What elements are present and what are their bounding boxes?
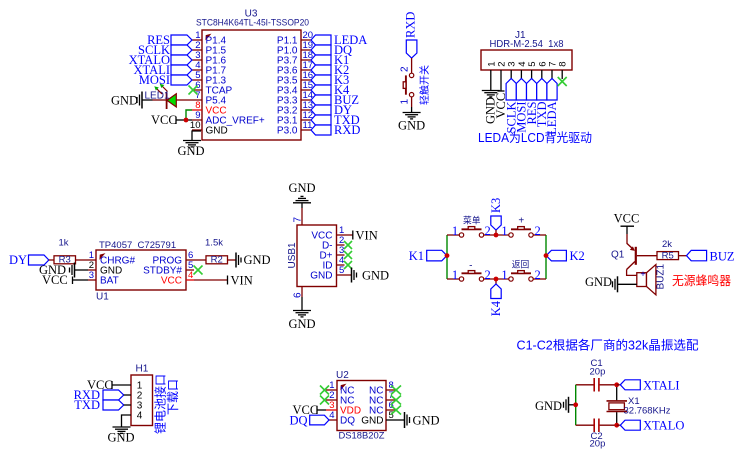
IC U3 body bbox=[202, 30, 301, 140]
svg-text:U2: U2 bbox=[336, 370, 349, 381]
net flag K4 (vertical, bottom) bbox=[489, 279, 503, 316]
net flag SCLK (J1 pin3) bbox=[504, 79, 518, 134]
net flag SCLK bbox=[138, 43, 192, 57]
IC U1 body bbox=[96, 250, 186, 290]
capacitor C1 bbox=[594, 378, 599, 392]
svg-text:GND: GND bbox=[111, 94, 138, 108]
no-connect X U2 pins 1,2 bbox=[320, 386, 329, 405]
pushbutton + (top-right) bbox=[501, 215, 540, 238]
net flag TXD (J1 pin6) bbox=[535, 79, 549, 128]
wire pin1 to VIN bbox=[345, 234, 353, 236]
svg-text:VCC: VCC bbox=[614, 212, 640, 226]
pushbutton - (bottom-left) bbox=[452, 260, 491, 282]
wire pin10 GND down bbox=[192, 131, 201, 141]
net flag XTALO bbox=[129, 53, 192, 67]
svg-text:2k: 2k bbox=[662, 239, 672, 250]
net flag DY bbox=[9, 253, 49, 267]
svg-text:GND: GND bbox=[413, 414, 440, 428]
buzzer BUZ1 bbox=[637, 265, 656, 295]
svg-text:GND: GND bbox=[177, 144, 204, 158]
earth ground above USB (inverted) bbox=[293, 196, 311, 202]
USB1 right pin names bbox=[310, 231, 332, 282]
svg-text:BAT: BAT bbox=[100, 276, 119, 287]
svg-text:VIN: VIN bbox=[231, 274, 253, 288]
C2 wires bbox=[576, 424, 617, 426]
svg-text:3: 3 bbox=[89, 270, 94, 281]
svg-text:轻触开关: 轻触开关 bbox=[418, 65, 431, 105]
svg-text:2: 2 bbox=[534, 268, 540, 282]
pin number 1 bbox=[400, 99, 411, 105]
X1 designator bbox=[628, 396, 640, 407]
U3 left pin names bbox=[206, 36, 265, 137]
no-connect X USB pins 2,3,4 bbox=[344, 241, 352, 269]
value 2k bbox=[662, 239, 672, 250]
svg-text:BUZ: BUZ bbox=[710, 249, 735, 263]
net flag RES bbox=[147, 33, 192, 47]
wire pin4 to VIN bbox=[194, 279, 228, 281]
wire DY to R3 bbox=[49, 259, 54, 261]
svg-text:无源蜂鸣器: 无源蜂鸣器 bbox=[672, 273, 731, 288]
value 1k bbox=[58, 238, 68, 249]
GND label below USB bbox=[288, 317, 315, 331]
U2 right pin numbers bbox=[389, 380, 394, 421]
svg-text:1: 1 bbox=[501, 268, 507, 282]
svg-text:R2: R2 bbox=[211, 255, 223, 266]
svg-text:VCC: VCC bbox=[42, 273, 68, 287]
wire H1 pin4 to ground bbox=[122, 415, 132, 427]
ground power port at USB pin5 bbox=[352, 268, 390, 283]
U2 left pin names bbox=[340, 386, 361, 427]
no-connect X J1 pin8 bbox=[558, 77, 567, 86]
svg-text:1: 1 bbox=[452, 224, 458, 238]
wires C1 bbox=[576, 384, 617, 386]
net flag XTALI bbox=[134, 63, 193, 77]
C1 designator bbox=[591, 358, 603, 369]
U3 right pin stubs pins 20-11 bbox=[301, 40, 311, 130]
svg-text:MOSI: MOSI bbox=[139, 73, 170, 87]
left green rail crystal bbox=[575, 385, 577, 425]
net flag RES (J1 pin5) bbox=[525, 79, 539, 125]
svg-text:+: + bbox=[518, 215, 524, 226]
green wire pin8 VCC to junction bbox=[186, 110, 192, 120]
C2 designator bbox=[591, 431, 603, 442]
svg-text:GND: GND bbox=[206, 126, 228, 137]
H1 pin numbers bbox=[137, 381, 143, 422]
top row wires bbox=[447, 234, 546, 236]
earth ground below pin10 bbox=[183, 141, 201, 147]
junction dots K matrix bbox=[445, 233, 549, 282]
no-connect X U1 pin5 bbox=[194, 266, 203, 275]
transistor Q1 (PNP) bbox=[611, 244, 636, 270]
net flag K1 bbox=[409, 249, 447, 263]
svg-text:DY: DY bbox=[9, 253, 27, 267]
GND label below pin10 bbox=[177, 144, 204, 158]
wire flag to switch pin2 bbox=[411, 58, 413, 73]
svg-text:7: 7 bbox=[293, 217, 304, 223]
svg-text:K2: K2 bbox=[570, 249, 585, 263]
junction dots crystal bbox=[573, 382, 619, 427]
pushbutton 返回 (bottom-right) bbox=[501, 258, 540, 282]
net flag RXD (vertical) bbox=[404, 12, 418, 58]
U3 part name STC8H4K64TL-45I-TSSOP20 bbox=[196, 18, 309, 29]
net flag K3 (vertical, top) bbox=[489, 198, 503, 235]
X1 value 32.768KHz bbox=[624, 406, 671, 417]
U1 right pin names bbox=[143, 256, 182, 287]
wire LED anode to pin7 bbox=[176, 99, 192, 101]
net flag DQ (U2 pin4) bbox=[289, 414, 329, 428]
U2 left pin stubs bbox=[326, 390, 337, 420]
ground power port at buzzer bbox=[585, 275, 637, 292]
svg-text:20p: 20p bbox=[590, 439, 606, 450]
wire U2 pin5 to ground bbox=[397, 419, 405, 421]
net flag RXD (H1 pin2) bbox=[74, 388, 131, 402]
net flag MOSI (J1 pin4) bbox=[515, 79, 529, 133]
VCC power port J1 pin2 (vertical) bbox=[494, 91, 508, 119]
svg-text:RXD: RXD bbox=[334, 123, 360, 137]
left green rail bbox=[446, 235, 448, 279]
svg-text:VIN: VIN bbox=[356, 229, 378, 243]
svg-text:LEDA为LCD背光驱动: LEDA为LCD背光驱动 bbox=[478, 131, 592, 145]
annotation 锂电池接口 (vertical) bbox=[153, 374, 168, 434]
svg-text:U1: U1 bbox=[96, 292, 109, 303]
svg-text:VCC: VCC bbox=[151, 113, 177, 127]
svg-text:C1-C2根据各厂商的32k晶振选配: C1-C2根据各厂商的32k晶振选配 bbox=[517, 338, 699, 353]
connector H1 body bbox=[131, 375, 153, 426]
U2 designator bbox=[336, 370, 349, 381]
svg-text:+: + bbox=[640, 269, 645, 279]
pin number 2 bbox=[400, 66, 411, 72]
bottom row wires bbox=[447, 278, 546, 280]
svg-text:2: 2 bbox=[484, 224, 490, 238]
USB1 designator (vertical) bbox=[287, 242, 298, 269]
svg-text:4: 4 bbox=[137, 411, 143, 422]
wire pin5 to ground bbox=[345, 274, 352, 276]
annotation 下载口 (vertical) bbox=[166, 379, 180, 415]
VCC power port at U1 pin3 bbox=[42, 273, 88, 287]
earth ground below USB bbox=[293, 311, 311, 317]
connector J1 designator bbox=[515, 30, 526, 41]
J1 part name HDR-M-2.54 1x8 bbox=[490, 39, 564, 50]
ground power port at U2 pin5 bbox=[405, 412, 440, 428]
no-connect X U2 pins 8,7,6 bbox=[391, 386, 401, 415]
VCC power port at pin9 bbox=[151, 113, 192, 127]
GND label above USB bbox=[288, 181, 315, 195]
svg-text:BUZ1: BUZ1 bbox=[656, 264, 667, 290]
net flag TXD (H1 pin3) bbox=[74, 398, 131, 412]
pushbutton 菜单 (top-left) bbox=[452, 214, 491, 238]
svg-text:DS18B20Z: DS18B20Z bbox=[339, 431, 385, 442]
VCC power port at U2 pin3 bbox=[293, 403, 327, 417]
annotation LEDA为LCD背光驱动 bbox=[478, 131, 592, 145]
ground power port at U1 pin2 bbox=[39, 263, 88, 278]
LED LED1 bbox=[145, 84, 177, 109]
crystal X1 bbox=[607, 401, 628, 412]
pin number 6 bbox=[293, 292, 304, 298]
net flag XTALO bbox=[617, 419, 685, 433]
svg-text:HDR-M-2.54 1x8: HDR-M-2.54 1x8 bbox=[490, 39, 564, 50]
U2 right pin names bbox=[361, 386, 383, 427]
wire switch pin1 to ground bbox=[411, 97, 413, 113]
svg-text:GND: GND bbox=[361, 416, 383, 427]
svg-text:1: 1 bbox=[400, 99, 411, 105]
VCC power port above Q1 bbox=[614, 212, 640, 235]
earth ground J1 pin1 bbox=[482, 91, 500, 97]
wire top GND to USB pin7 bbox=[301, 203, 303, 225]
wire pin6 to R2 bbox=[194, 259, 206, 261]
svg-text:LED1: LED1 bbox=[145, 91, 170, 102]
svg-text:1: 1 bbox=[452, 268, 458, 282]
wire VCC to Q1 emitter bbox=[626, 234, 628, 244]
svg-text:2: 2 bbox=[400, 66, 411, 72]
svg-text:-: - bbox=[469, 260, 472, 271]
earth ground below switch bbox=[403, 113, 421, 119]
svg-text:P3.0: P3.0 bbox=[277, 126, 298, 137]
wire Q1 collector to buzzer bbox=[627, 270, 637, 276]
svg-text:GND: GND bbox=[107, 431, 134, 445]
svg-text:菜单: 菜单 bbox=[463, 214, 481, 225]
GND label below H1 bbox=[107, 431, 134, 445]
svg-text:2: 2 bbox=[484, 268, 490, 282]
svg-text:1k: 1k bbox=[58, 238, 68, 249]
svg-text:GND: GND bbox=[398, 119, 425, 133]
net flag BUZ bbox=[687, 249, 735, 263]
net flag XTALI bbox=[617, 378, 680, 392]
svg-text:1: 1 bbox=[501, 224, 507, 238]
U1 left pin names bbox=[100, 256, 135, 287]
svg-text:XTALI: XTALI bbox=[643, 378, 680, 392]
U3 right pin numbers 20-11 bbox=[303, 30, 314, 131]
svg-text:XTALO: XTALO bbox=[643, 419, 684, 433]
svg-text:Q1: Q1 bbox=[611, 250, 625, 261]
svg-text:10: 10 bbox=[190, 120, 201, 131]
GND label J1 pin1 (vertical) bbox=[484, 97, 498, 124]
U1 right pin numbers bbox=[188, 250, 193, 281]
earth ground below H1 bbox=[113, 427, 131, 433]
svg-text:2: 2 bbox=[534, 224, 540, 238]
annotation 无源蜂鸣器 bbox=[672, 273, 731, 288]
resistor R3 bbox=[54, 255, 76, 266]
svg-text:DQ: DQ bbox=[289, 414, 307, 428]
U1 designator bbox=[96, 292, 109, 303]
connector J1 body bbox=[481, 50, 572, 70]
pin number 7 bbox=[293, 217, 304, 223]
wire USB pin6 down bbox=[301, 287, 303, 311]
wire R3 to pin1 bbox=[76, 259, 89, 261]
value 1.5k bbox=[205, 238, 223, 249]
net flag K2 bbox=[546, 249, 585, 263]
USB1 right pin stubs bbox=[337, 235, 345, 275]
svg-text:VCC: VCC bbox=[161, 276, 182, 287]
U3 right pin names bbox=[277, 36, 298, 137]
net flag LEDA (J1 pin7) bbox=[545, 79, 559, 135]
resistor R2 bbox=[206, 255, 228, 266]
C2 value 20p bbox=[590, 439, 606, 450]
svg-text:32.768KHz: 32.768KHz bbox=[624, 406, 671, 417]
svg-text:20p: 20p bbox=[590, 367, 606, 378]
U2 left pin numbers bbox=[329, 380, 334, 421]
svg-text:GND: GND bbox=[535, 399, 562, 413]
BUZ1 designator (vertical) bbox=[656, 264, 667, 290]
svg-text:GND: GND bbox=[288, 317, 315, 331]
IC U2 body bbox=[337, 381, 386, 431]
svg-text:GND: GND bbox=[310, 271, 332, 282]
svg-text:K4: K4 bbox=[489, 300, 503, 316]
right green rail bbox=[545, 235, 547, 279]
resistor R5 bbox=[657, 251, 679, 262]
ground power port at LED cathode bbox=[111, 92, 153, 109]
VIN power port at USB pin1 bbox=[353, 229, 378, 243]
U1 left pin stubs bbox=[88, 260, 96, 280]
svg-text:8: 8 bbox=[558, 62, 569, 67]
C1 value 20p bbox=[590, 367, 606, 378]
svg-text:GND: GND bbox=[244, 253, 271, 267]
VIN power port at U1 pin4 bbox=[228, 274, 253, 288]
wire Q1 base to R5 bbox=[637, 255, 657, 257]
svg-text:TXD: TXD bbox=[74, 398, 100, 412]
U3 left pin stubs pins1-10 bbox=[192, 40, 202, 130]
connector USB1 body bbox=[297, 225, 337, 287]
right vertical wire through crystal bbox=[616, 385, 618, 425]
J1 pin numbers 1-8 rotated bbox=[486, 62, 568, 67]
label 轻触开关 bbox=[418, 65, 431, 105]
pushbutton switch (vertical tact) bbox=[403, 73, 414, 97]
svg-text:RXD: RXD bbox=[404, 12, 418, 38]
svg-text:USB1: USB1 bbox=[287, 242, 298, 269]
no-connect X on pin 6 TCAP bbox=[189, 86, 198, 95]
svg-text:R5: R5 bbox=[662, 251, 674, 262]
U1 left pin numbers bbox=[89, 250, 94, 281]
svg-text:1.5k: 1.5k bbox=[205, 238, 223, 249]
wire LED cathode to GND bbox=[153, 99, 167, 101]
ground power port after R2 bbox=[236, 253, 271, 268]
U1 right pin stubs bbox=[186, 260, 194, 280]
net flag MOSI bbox=[139, 73, 192, 87]
H1 designator bbox=[136, 364, 149, 375]
svg-text:LEDA: LEDA bbox=[545, 102, 559, 135]
USB1 right pin numbers bbox=[339, 225, 344, 276]
J1 pin wires bbox=[491, 70, 562, 91]
svg-text:GND: GND bbox=[288, 181, 315, 195]
GND label below switch bbox=[398, 119, 425, 133]
svg-text:GND: GND bbox=[585, 275, 612, 289]
svg-text:GND: GND bbox=[362, 269, 389, 283]
svg-text:H1: H1 bbox=[136, 364, 149, 375]
junction at VCC node bbox=[184, 118, 189, 123]
ground power port crystal bbox=[535, 397, 576, 413]
op-amp U3 designator text bbox=[245, 9, 258, 20]
capacitor C2 bbox=[594, 419, 599, 433]
svg-text:K3: K3 bbox=[489, 198, 503, 213]
svg-text:K1: K1 bbox=[409, 249, 424, 263]
VCC power port at H1 pin1 bbox=[87, 378, 131, 392]
svg-text:下载口: 下载口 bbox=[166, 379, 180, 415]
annotation C1-C2根据各厂商的32k晶振选配 bbox=[517, 338, 699, 353]
svg-text:4: 4 bbox=[329, 410, 334, 421]
U2 right pin stubs bbox=[386, 390, 397, 420]
svg-text:STC8H4K64TL-45I-TSSOP20: STC8H4K64TL-45I-TSSOP20 bbox=[196, 18, 309, 29]
U3 left pin numbers 1-10 bbox=[190, 30, 201, 131]
svg-text:返回: 返回 bbox=[512, 258, 530, 269]
right net flags LEDA DQ K1 K2 K3 K4 BUZ DY TXD RXD bbox=[311, 33, 367, 137]
U2 part name DS18B20Z bbox=[339, 431, 385, 442]
U1 part name TP4057 C725791 bbox=[99, 240, 176, 251]
wire R2 to ground bbox=[228, 259, 237, 261]
svg-text:DQ: DQ bbox=[340, 416, 355, 427]
wire R5 to BUZ flag bbox=[679, 255, 687, 257]
